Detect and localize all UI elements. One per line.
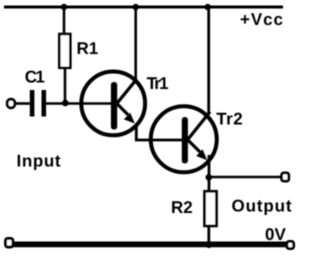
svg-text:R2: R2 — [171, 198, 193, 217]
svg-text:R1: R1 — [77, 39, 99, 58]
svg-text:0V: 0V — [265, 225, 286, 244]
svg-text:Output: Output — [232, 197, 292, 216]
svg-text:Tr1: Tr1 — [147, 74, 169, 93]
svg-text:C1: C1 — [25, 67, 45, 86]
svg-text:+Vcc: +Vcc — [240, 10, 283, 29]
svg-text:Input: Input — [17, 151, 61, 170]
svg-text:Tr2: Tr2 — [216, 110, 243, 129]
